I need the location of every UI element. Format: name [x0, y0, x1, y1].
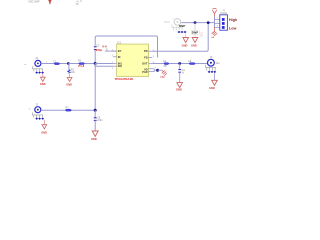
- wire node E to chassis ground: [158, 69, 162, 71]
- jack J4 pin diamonds: [208, 71, 216, 73]
- node D junction: [178, 62, 181, 65]
- ground under C8: [91, 131, 98, 141]
- svg-text:GND: GND: [209, 86, 215, 90]
- L1 labels: [163, 60, 167, 68]
- capacitor C5 plates: [94, 47, 97, 50]
- chassis ground under connector: [211, 27, 217, 38]
- capacitor C8 plates: [94, 118, 97, 121]
- connector J1 name labels: [220, 9, 227, 15]
- svg-text:High: High: [229, 18, 238, 22]
- node E junction: [156, 69, 159, 72]
- clipped red symbol top edge: [48, 0, 51, 5]
- ground under J2: [40, 74, 46, 87]
- node A junction: [67, 62, 70, 65]
- capacitor C9 plates: [178, 70, 181, 73]
- IC1 pin stubs left: [113, 51, 117, 66]
- resistor R3 labels: [71, 69, 76, 75]
- svg-text:IN: IN: [118, 55, 121, 59]
- node B junction: [94, 62, 97, 65]
- node C junction: [94, 109, 97, 112]
- svg-text:C1: C1: [53, 59, 57, 63]
- IC1 pin numbers left: [112, 49, 114, 70]
- X1 diamonds connecting line: [177, 31, 187, 33]
- wire to pin 1: [105, 50, 117, 52]
- node F junction on rail: [194, 21, 197, 24]
- svg-text:EA: EA: [211, 36, 214, 39]
- OUT wire run: [152, 63, 207, 65]
- wire node D down to C9: [179, 64, 181, 70]
- wire node B to pin IN2: [95, 64, 113, 67]
- svg-text:GND: GND: [66, 82, 72, 86]
- IC1 left pin labels: [118, 49, 123, 68]
- svg-text:in: in: [29, 109, 31, 111]
- VDD rail wire: [181, 22, 214, 24]
- svg-text:IC1: IC1: [117, 41, 122, 45]
- connector J1 body: [220, 15, 228, 30]
- DNP capacitor branch wire: [194, 23, 196, 31]
- connector J1 pin squares: [222, 18, 225, 29]
- op-amp IC1 body: [117, 44, 149, 76]
- supply flag VDD red: [212, 8, 217, 16]
- clipped gray text top right of title: [76, 0, 83, 6]
- VS pins bus and node E: [154, 69, 157, 72]
- resistor R1 blob: [79, 63, 84, 65]
- svg-text:10k: 10k: [71, 71, 76, 74]
- svg-text:6: 6: [155, 67, 157, 69]
- wire node B to pin IN1: [95, 63, 113, 65]
- svg-text:T8: T8: [76, 3, 79, 6]
- svg-text:R1: R1: [78, 59, 82, 63]
- ferrite bead L1 blob: [164, 63, 169, 65]
- svg-text:PAD: PAD: [142, 70, 147, 74]
- IC1 right pin labels: [142, 49, 148, 74]
- svg-text:GND: GND: [191, 44, 197, 48]
- svg-text:100n: 100n: [97, 119, 103, 122]
- svg-text:FB: FB: [144, 55, 148, 59]
- ground under C9: [176, 83, 183, 92]
- ground under C10: [191, 38, 198, 48]
- wire node C down to C8: [94, 110, 96, 117]
- connector J1 pin stubs: [215, 19, 220, 27]
- svg-text:VDD 3MP: VDD 3MP: [28, 0, 40, 4]
- wire C10 to ground: [194, 34, 196, 37]
- jack J3 circle: [35, 107, 41, 113]
- svg-text:P1.8: P1.8: [78, 64, 84, 68]
- svg-text:J2: J2: [35, 56, 38, 60]
- jack J2 circle: [35, 60, 41, 66]
- chassis ground at node E: [160, 70, 166, 79]
- svg-text:FB: FB: [164, 65, 167, 68]
- capacitor C1 blob: [54, 63, 59, 65]
- svg-text:R2: R2: [65, 105, 69, 109]
- ghost jack X1 circle DNP: [173, 18, 181, 26]
- wire X1 diamond to ground: [185, 33, 187, 37]
- svg-text:P6D: P6D: [160, 77, 165, 79]
- svg-text:GND: GND: [91, 137, 97, 140]
- wire node A down: [68, 64, 70, 70]
- output jack J4 circle: [208, 59, 215, 66]
- capacitor C9 labels: [182, 69, 186, 75]
- connector feed wire: [214, 16, 216, 27]
- capacitor C8 labels: [97, 117, 103, 123]
- vertical bus node B to node C: [94, 64, 96, 111]
- wire J2 to node A: [41, 63, 69, 65]
- svg-text:DNP: DNP: [192, 31, 198, 35]
- jack J4 contact comb: [206, 65, 216, 71]
- svg-text:GND: GND: [176, 87, 182, 91]
- svg-text:OUT: OUT: [142, 61, 148, 65]
- DNP label for C10: [191, 31, 199, 35]
- svg-text:9: 9: [112, 68, 114, 70]
- wire C8 to ground: [94, 120, 96, 131]
- svg-text:4: 4: [153, 56, 155, 58]
- svg-text:PS-2: PS-2: [164, 20, 170, 24]
- ground under J4: [209, 73, 217, 90]
- svg-text:1n: 1n: [182, 72, 185, 75]
- svg-text:in: in: [25, 64, 27, 66]
- feedback loop wire: [95, 36, 157, 58]
- jack J3 pin diamonds: [35, 118, 44, 120]
- svg-text:C5: C5: [96, 43, 100, 47]
- resistor R2 blob: [66, 109, 72, 111]
- svg-text:C: C: [80, 0, 82, 3]
- svg-text:GND: GND: [40, 82, 46, 86]
- jack J2 pin diamonds: [35, 72, 44, 74]
- svg-text:IN2: IN2: [118, 64, 123, 68]
- wire node A to node B: [68, 63, 95, 65]
- svg-text:PD: PD: [144, 49, 148, 53]
- net flag red near pin IN+: [102, 45, 107, 52]
- PD net wire to VDD rail: [152, 23, 208, 52]
- X1 pin diamonds row: [178, 31, 187, 33]
- svg-text:DNP: DNP: [179, 24, 185, 28]
- svg-text:Low: Low: [229, 26, 237, 30]
- IC1 pin numbers right: [153, 50, 157, 70]
- svg-text:Out: Out: [216, 62, 220, 65]
- jack J2 contact comb: [32, 66, 43, 71]
- jack J3 contact comb: [32, 112, 43, 117]
- svg-text:BY: BY: [118, 49, 122, 53]
- ghost jack X1 comb: [172, 25, 183, 31]
- ferrite bead L2 blob: [189, 63, 195, 65]
- svg-text:TPA6205A1D: TPA6205A1D: [114, 77, 134, 81]
- wire J3 to node C: [41, 109, 95, 111]
- resistor R3 vertical: [68, 70, 70, 74]
- connector J1 pin numbers: [217, 18, 219, 28]
- ground under node A: [66, 74, 72, 86]
- svg-text:GND: GND: [182, 44, 188, 48]
- svg-text:v·v: v·v: [102, 45, 107, 49]
- svg-text:PJ302: PJ302: [220, 12, 227, 15]
- ground under J3: [41, 120, 47, 135]
- wire C9 to ground: [179, 72, 181, 82]
- svg-text:5V0: 5V0: [201, 32, 204, 37]
- svg-text:J3: J3: [35, 102, 38, 106]
- IC1 pin stubs right: [149, 51, 155, 71]
- wire fb cap to input node: [94, 51, 96, 64]
- ground under X1: [182, 38, 189, 48]
- svg-text:J4: J4: [210, 55, 213, 59]
- svg-text:GND: GND: [41, 130, 47, 134]
- clipped gray text top-left: [28, 0, 40, 4]
- node G junction on rail: [207, 21, 210, 24]
